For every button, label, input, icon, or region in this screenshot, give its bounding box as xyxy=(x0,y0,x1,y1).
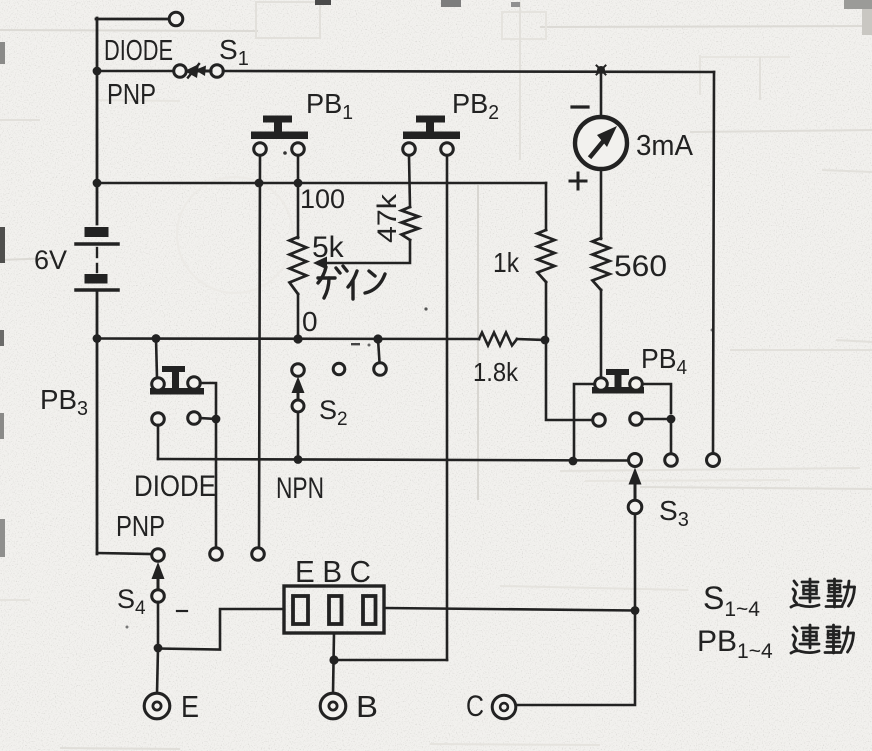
wire PB3 top-right to node xyxy=(200,383,216,419)
svg-text:E: E xyxy=(181,689,199,724)
label DIODE (bottom) xyxy=(134,470,216,503)
wire PB4 row2 right to node xyxy=(643,418,671,421)
wire PB3 row2 left drop to bus xyxy=(157,425,160,459)
node 5k bottom y339 xyxy=(293,334,302,343)
wire socket right to S3 column xyxy=(384,608,635,611)
switch S3 wiper arrow xyxy=(629,468,642,501)
svg-text:NPN: NPN xyxy=(276,472,324,505)
node socket wire / S3 column xyxy=(631,606,640,615)
wire PB4 top-right to right drop xyxy=(643,384,671,413)
battery cell2 thin plate xyxy=(76,288,118,292)
switch S3 pole circle xyxy=(628,500,642,514)
label PB2 xyxy=(452,88,499,124)
svg-text:3mA: 3mA xyxy=(636,130,694,162)
label 1k xyxy=(493,247,520,278)
socket slot C xyxy=(363,596,376,624)
node rail y339 xyxy=(93,334,102,343)
label PB3 xyxy=(40,384,88,420)
PB3 top-left contact xyxy=(152,378,165,391)
wire left rail upper xyxy=(96,18,99,224)
wire DIODE column xyxy=(215,419,218,548)
switch S4 target contact (PNP) xyxy=(152,549,165,562)
switch S3 fixed contact xyxy=(629,454,642,467)
PB2 right contact xyxy=(441,143,454,156)
label plus xyxy=(570,173,586,189)
node rail y183 xyxy=(93,179,102,188)
PB2 left contact xyxy=(403,143,416,156)
label 560 xyxy=(614,250,667,283)
svg-text:5k: 5k xyxy=(312,231,345,264)
switch S1 wiper arrows xyxy=(185,64,212,78)
label minus xyxy=(572,105,588,108)
wire B junction to PB2 column xyxy=(334,659,447,662)
node PB3 column y339 xyxy=(152,334,161,343)
kanji rendou 2 xyxy=(791,625,854,653)
PB3 row2 right contact xyxy=(188,412,201,425)
wire 47k top lead xyxy=(409,156,410,207)
wire bus y460 xyxy=(158,459,628,461)
label gain (katakana) xyxy=(318,266,385,299)
PB1 right contact xyxy=(292,143,305,156)
resistor 560 xyxy=(593,238,610,290)
svg-text:PNP: PNP xyxy=(116,511,165,543)
label S1 xyxy=(219,34,249,70)
contact circle right rail end xyxy=(707,454,720,467)
wire PB3 column top xyxy=(156,338,157,378)
label PNP (bottom) xyxy=(116,511,165,543)
contact circle right of S3 xyxy=(665,454,678,467)
label PB4 xyxy=(641,343,687,379)
wire S3 pole down to C corner xyxy=(517,514,635,705)
wire PB1 left column xyxy=(259,156,260,548)
meter M1 3mA xyxy=(575,117,627,169)
label 0 xyxy=(302,306,318,337)
terminal top-left open circle xyxy=(169,12,183,26)
PB4 row2 left contact xyxy=(593,414,606,427)
label E xyxy=(181,689,199,724)
socket slot E xyxy=(293,596,308,624)
pushbutton PB1 xyxy=(251,116,308,140)
svg-text:B: B xyxy=(356,689,378,724)
switch S4 wiper arrow xyxy=(152,562,165,589)
wire rail to PNP contact xyxy=(97,553,151,554)
label B xyxy=(356,689,378,724)
label 1.8k xyxy=(473,357,519,387)
contact circle bottom of PB1-left column xyxy=(252,548,265,561)
label PB1 xyxy=(306,88,353,124)
svg-text:560: 560 xyxy=(614,250,667,283)
wire 1k corner from y183 xyxy=(545,183,548,230)
switch S1 left contact xyxy=(174,65,187,78)
wire bus 0-line y339 xyxy=(97,337,479,340)
wire right drop to contact xyxy=(670,419,673,454)
label 6V xyxy=(34,245,67,275)
label 5k xyxy=(312,231,345,264)
wire left rail lower xyxy=(96,291,99,554)
label E B C xyxy=(295,554,371,589)
wire bus y183 xyxy=(97,182,546,185)
battery cell1 thin plate xyxy=(76,242,118,246)
wire PB4 top-left to left drop xyxy=(574,384,594,461)
resistor 1.8k xyxy=(479,333,517,346)
wire S2 pole to bus xyxy=(297,412,300,459)
svg-text:100: 100 xyxy=(300,184,345,214)
node B junction xyxy=(329,655,338,664)
PB3 row2 left contact xyxy=(152,413,165,426)
svg-text:1k: 1k xyxy=(493,247,520,278)
svg-text:6V: 6V xyxy=(34,245,67,275)
label S1-4 interlock xyxy=(703,580,760,621)
wire 1.8k to 1k column xyxy=(517,339,546,340)
svg-text:DIODE: DIODE xyxy=(104,35,173,67)
battery mid stem dashes xyxy=(96,248,98,272)
resistor 47k xyxy=(402,207,419,240)
label S2 xyxy=(319,395,348,430)
svg-text:C: C xyxy=(466,690,484,723)
label PNP (top) xyxy=(107,79,156,111)
node PB1 left y183 xyxy=(255,179,264,188)
switch S1 right contact xyxy=(211,65,224,78)
switch S2 wiper arrow xyxy=(292,377,305,401)
wire E terminal lead xyxy=(157,648,158,694)
switch S2 contacts row xyxy=(292,363,387,377)
wire S2 stub from 0-line xyxy=(378,339,380,362)
svg-text:PNP: PNP xyxy=(107,79,156,111)
svg-text:1.8k: 1.8k xyxy=(473,357,519,387)
socket slot B xyxy=(329,596,342,624)
wire 47k to wiper xyxy=(322,240,410,263)
wire 100 lead xyxy=(297,183,300,238)
label 3mA xyxy=(636,130,694,162)
wire top line xyxy=(223,71,714,72)
label DIODE (top) xyxy=(104,35,173,67)
svg-text:DIODE: DIODE xyxy=(134,470,216,503)
node PB4 right drop xyxy=(667,415,676,424)
pushbutton PB2 xyxy=(403,116,460,140)
wire top stub to terminal xyxy=(96,18,169,21)
resistor 5k potentiometer body xyxy=(290,237,307,294)
potentiometer wiper arrow xyxy=(313,257,327,270)
wire 1k bottom to PB4 row2 xyxy=(546,282,592,420)
switch S2 pole circle xyxy=(292,400,304,412)
label 100 xyxy=(300,184,345,214)
node S4/E junction xyxy=(154,644,163,653)
node S2 bottom y460 xyxy=(294,455,303,464)
wire PB1 right to y183 xyxy=(297,156,300,183)
wire S1 left xyxy=(97,70,173,73)
label NPN xyxy=(276,472,324,505)
wire socket bottom to B xyxy=(333,633,334,694)
wire meter top lead xyxy=(600,72,603,118)
node 1k column y340 xyxy=(541,336,550,345)
label 47k rotated xyxy=(372,193,402,243)
node S2 stub y339 xyxy=(373,334,382,343)
terminal E xyxy=(144,693,170,719)
PB1 left contact xyxy=(254,143,267,156)
pushbutton PB4 xyxy=(592,369,644,394)
pushbutton PB3 xyxy=(150,366,204,395)
svg-text:47k: 47k xyxy=(372,193,402,243)
node junction left rail / S1 xyxy=(93,67,102,76)
wire S4 pole down xyxy=(157,602,160,648)
label S3 xyxy=(659,495,689,531)
node PB3 drop xyxy=(212,415,221,424)
wire meter bottom lead xyxy=(600,169,603,239)
terminal C xyxy=(492,695,516,719)
stray dash right of S4 xyxy=(177,610,187,612)
contact circle bottom of DIODE column xyxy=(210,548,223,561)
node PB4 left drop y461 xyxy=(569,457,578,466)
wire 560 to PB4 xyxy=(600,290,603,379)
label C xyxy=(466,690,484,723)
wire 5k bottom lead xyxy=(297,294,300,339)
PB4 top-left contact xyxy=(595,378,608,391)
resistor 1k xyxy=(538,230,555,282)
switch S4 pole circle xyxy=(152,590,165,603)
label PB1-4 interlock xyxy=(697,625,773,663)
wire right rail xyxy=(713,72,714,454)
battery B1 6V cell1 thick plate xyxy=(85,227,109,237)
node PB1 right y183 xyxy=(294,179,303,188)
PB3 top-right contact xyxy=(188,377,201,390)
wire PB3 row2 right to node xyxy=(200,418,216,419)
svg-text:0: 0 xyxy=(302,306,318,337)
battery cell2 thick plate xyxy=(85,274,108,284)
PB4 row2 right contact xyxy=(630,413,643,426)
transistor socket outline xyxy=(284,586,384,633)
PB4 top-right contact xyxy=(630,378,643,391)
svg-text:EBC: EBC xyxy=(295,554,371,589)
node meter top junction x-mark xyxy=(597,66,606,75)
label S4 xyxy=(117,584,146,619)
wire S4 junction to socket xyxy=(158,609,283,650)
terminal B xyxy=(320,693,346,719)
kanji rendou 1 xyxy=(791,579,855,607)
wire PB2 right column xyxy=(446,156,449,660)
